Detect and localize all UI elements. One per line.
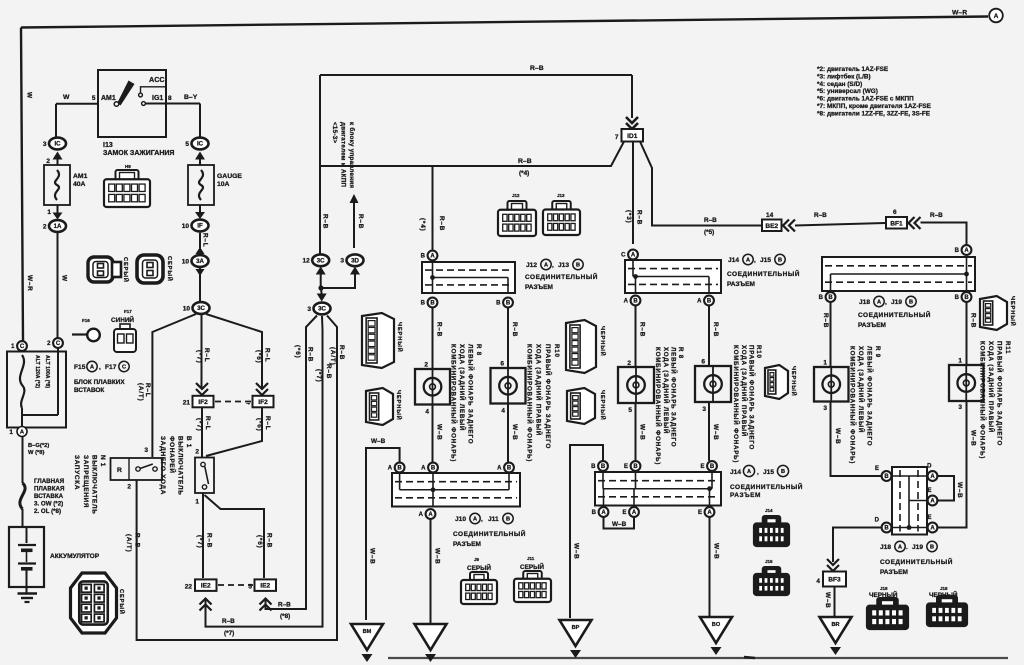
svg-text:J16: J16 xyxy=(765,559,773,564)
label junction connector (pair3 bottom) xyxy=(880,557,953,576)
pins A B below J14/J15 xyxy=(624,296,714,306)
wire R-B (*4) to J12 junction xyxy=(419,158,532,250)
label R11 lamp xyxy=(979,341,1012,459)
svg-text:R–L: R–L xyxy=(202,233,209,247)
svg-text:ЧЕРНЫЙ: ЧЕРНЫЙ xyxy=(790,366,798,397)
dashed link between IE2 connectors xyxy=(218,584,253,586)
svg-text:IF2: IF2 xyxy=(258,399,268,406)
svg-text:,: , xyxy=(481,516,483,523)
svg-text:W–B: W–B xyxy=(824,592,831,609)
svg-text:СЕРЫЙ: СЕРЫЙ xyxy=(166,256,174,282)
label R8 pair2 lamp xyxy=(654,347,684,465)
label J14 A J15 B (top) xyxy=(728,254,785,264)
svg-text:ALT 120A (*2): ALT 120A (*2) xyxy=(34,355,40,388)
svg-text:A: A xyxy=(930,499,935,505)
ground BR xyxy=(820,617,852,655)
connector 10 3C xyxy=(183,302,210,314)
svg-text:ЛЕВЫЙ ФОНАРЬ ЗАДНЕГО: ЛЕВЫЙ ФОНАРЬ ЗАДНЕГО xyxy=(467,344,475,444)
svg-text:1: 1 xyxy=(823,360,827,367)
svg-text:W–B: W–B xyxy=(612,521,627,528)
svg-text:R–B: R–B xyxy=(712,322,719,337)
svg-text:(*7): (*7) xyxy=(224,630,234,637)
svg-text:A: A xyxy=(746,258,750,264)
svg-text:B–G(*2): B–G(*2) xyxy=(28,443,49,449)
label junction connector (pair2 top) xyxy=(727,269,800,288)
svg-text:BM: BM xyxy=(363,629,372,635)
svg-text:J9: J9 xyxy=(474,557,480,562)
svg-text:ПРАВЫЙ ФОНАРЬ ЗАДНЕГО: ПРАВЫЙ ФОНАРЬ ЗАДНЕГО xyxy=(544,344,552,449)
svg-text:ЧЕРНЫЙ: ЧЕРНЫЙ xyxy=(599,326,607,357)
svg-text:B: B xyxy=(955,248,960,254)
svg-text:J19: J19 xyxy=(940,586,948,591)
wire R-B to lamp R10 (pair2 right, pin 6) xyxy=(701,306,719,366)
svg-text:двигателем и АКПП: двигателем и АКПП xyxy=(339,122,346,188)
connector icon black R8 upper xyxy=(362,313,404,368)
svg-text:АККУМУЛЯТОР: АККУМУЛЯТОР xyxy=(50,553,100,560)
svg-text:21: 21 xyxy=(183,400,191,407)
svg-text:ВЫКЛЮЧАТЕЛЬ: ВЫКЛЮЧАТЕЛЬ xyxy=(90,455,97,515)
svg-text:IE2: IE2 xyxy=(260,583,270,590)
connector icon black R10 lower (middle) xyxy=(567,388,607,424)
svg-text:W–B: W–B xyxy=(956,482,963,499)
wire R-L (*7) from 3C to connector 21 IF2 xyxy=(196,315,211,389)
svg-text:R 8: R 8 xyxy=(677,347,684,359)
svg-text:2: 2 xyxy=(127,484,131,491)
svg-text:A: A xyxy=(497,466,502,472)
svg-text:A: A xyxy=(473,517,477,523)
svg-text:F15: F15 xyxy=(74,364,86,371)
svg-text:R–B: R–B xyxy=(436,322,443,337)
svg-text:СОЕДИНИТЕЛЬНЫЙ: СОЕДИНИТЕЛЬНЫЙ xyxy=(880,557,953,566)
wire W-B inverted U to ground BP xyxy=(570,445,603,618)
N1 designator text xyxy=(73,455,106,515)
connector icon black J18 (bottom) xyxy=(867,586,908,629)
svg-text:3C: 3C xyxy=(317,258,325,265)
svg-text:A: A xyxy=(877,300,881,306)
svg-text:IC: IC xyxy=(197,141,204,148)
svg-text:A: A xyxy=(631,253,636,259)
connector 7 ID1 xyxy=(615,117,643,142)
wire R-L (A/T) from 3C to park/neutral switch N1 xyxy=(137,314,196,457)
svg-text:<15-3>: <15-3> xyxy=(331,122,338,143)
svg-text:.: . xyxy=(906,544,908,551)
reverse lamp R8 (pair2 left) xyxy=(618,367,654,403)
svg-text:*4: седан (S/D): *4: седан (S/D) xyxy=(817,81,862,88)
svg-text:B: B xyxy=(633,299,638,305)
wire R-B from BE2 to BF1 xyxy=(795,212,885,226)
connector 3 IC xyxy=(43,138,66,160)
svg-text:ЗАМОК ЗАЖИГАНИЯ: ЗАМОК ЗАЖИГАНИЯ xyxy=(103,150,174,157)
svg-text:БЛОК ПЛАВКИХ: БЛОК ПЛАВКИХ xyxy=(74,379,125,386)
svg-text:3: 3 xyxy=(958,404,962,411)
pins A B top of junction J10/J11 xyxy=(388,463,514,473)
wire and arrow into fuse GAUGE xyxy=(199,158,201,165)
svg-text:BR: BR xyxy=(831,622,839,628)
svg-text:D: D xyxy=(875,518,880,524)
svg-text:A: A xyxy=(632,510,637,516)
svg-text:J18: J18 xyxy=(880,544,891,551)
svg-text:J14: J14 xyxy=(730,469,741,476)
svg-text:5: 5 xyxy=(185,141,189,148)
svg-text:J19: J19 xyxy=(891,299,902,306)
junction connector J14/J15 top box xyxy=(625,260,721,293)
label J18 A J19 B (top) xyxy=(859,296,916,306)
svg-text:A: A xyxy=(419,512,424,518)
svg-text:(*5): (*5) xyxy=(704,229,714,236)
reverse light switch B1 (ВЫКЛЮЧАТЕЛЬ ФОНАРЕЙ ЗАДНЕГО ХОДА) xyxy=(195,449,214,506)
wire W-B from E A to ground BO xyxy=(710,517,720,617)
svg-text:(*4): (*4) xyxy=(519,170,529,177)
svg-text:R–L: R–L xyxy=(264,348,271,362)
svg-text:R 9: R 9 xyxy=(874,346,881,358)
svg-text:В 1: В 1 xyxy=(185,436,192,448)
svg-text:12: 12 xyxy=(302,258,310,265)
svg-text:1: 1 xyxy=(958,358,962,365)
svg-text:IE2: IE2 xyxy=(201,583,211,590)
svg-text:ЧЕРНЫЙ: ЧЕРНЫЙ xyxy=(395,390,403,421)
svg-text:8: 8 xyxy=(168,95,172,102)
pins B B below J18/J19 xyxy=(819,292,972,302)
svg-text:40A: 40A xyxy=(73,181,86,188)
svg-text:A: A xyxy=(430,254,435,260)
svg-text:B: B xyxy=(710,464,715,470)
svg-text:E: E xyxy=(624,464,628,470)
wire W-B from pair2 right lamp pin 3 xyxy=(702,402,719,461)
label fusible link block xyxy=(74,379,125,394)
svg-text:R–B: R–B xyxy=(278,602,291,609)
svg-text:КОМБИНИРОВАННЫЙ ФОНАРЬ): КОМБИНИРОВАННЫЙ ФОНАРЬ) xyxy=(732,345,740,463)
svg-text:R–B: R–B xyxy=(325,364,332,379)
connector 3 3D xyxy=(340,214,364,275)
connector 22 IE2 xyxy=(185,579,217,610)
svg-text:B: B xyxy=(633,464,638,470)
connector icon J16 (right of pair2) xyxy=(754,559,789,595)
svg-text:ХОДА (ЗАДНИЙ ПРАВЫЙ: ХОДА (ЗАДНИЙ ПРАВЫЙ xyxy=(535,344,543,436)
svg-text:3C: 3C xyxy=(318,306,326,313)
page edge artifact line (bottom) xyxy=(388,657,1008,658)
svg-text:ЧЕРНЫЙ: ЧЕРНЫЙ xyxy=(1009,296,1017,327)
connector 5 IC xyxy=(185,138,208,160)
label junction connector (pair2 bottom) xyxy=(730,482,803,499)
svg-text:R–B: R–B xyxy=(704,217,717,224)
svg-text:,: , xyxy=(552,262,554,269)
svg-text:4: 4 xyxy=(425,409,429,416)
pin D A right top of vertical box xyxy=(927,464,937,481)
svg-text:B: B xyxy=(506,517,510,523)
svg-text:W (*8): W (*8) xyxy=(28,450,44,456)
svg-text:РАЗЪЕМ: РАЗЪЕМ xyxy=(727,281,755,288)
svg-text:,: , xyxy=(99,364,101,371)
svg-text:W–B: W–B xyxy=(436,424,443,441)
svg-text:7: 7 xyxy=(615,134,619,141)
wire R-B top horizontal to ID1 xyxy=(320,65,632,118)
connector icon J11 grey (СЕРЫЙ) xyxy=(514,556,551,602)
svg-text:1: 1 xyxy=(47,209,51,216)
pin 8 label and wire B-Y from IG1 xyxy=(166,94,200,137)
legend notes *2-*8 xyxy=(817,66,932,117)
svg-text:3D: 3D xyxy=(351,258,359,265)
svg-text:22: 22 xyxy=(185,584,193,591)
connector 2 C xyxy=(47,338,63,348)
svg-text:R–B: R–B xyxy=(636,210,643,225)
junction connector J12/J13 box xyxy=(422,262,515,293)
svg-text:ХОДА (ЗАДНИЙ ЛЕВЫЙ: ХОДА (ЗАДНИЙ ЛЕВЫЙ xyxy=(662,347,670,434)
svg-text:B: B xyxy=(955,295,960,301)
svg-text:ХОДА (ЗАДНИЙ ЛЕВЫЙ: ХОДА (ЗАДНИЙ ЛЕВЫЙ xyxy=(857,346,865,433)
svg-text:ЧЕРНЫЙ: ЧЕРНЫЙ xyxy=(599,390,607,421)
svg-text:W–B: W–B xyxy=(639,424,646,441)
svg-text:6: 6 xyxy=(500,361,504,368)
pin E A right bottom of vertical box xyxy=(927,515,937,532)
label J18 A J19 B (bottom) xyxy=(880,541,937,551)
svg-text:R–B: R–B xyxy=(307,347,314,362)
svg-text:W–B: W–B xyxy=(573,543,580,560)
svg-text:3: 3 xyxy=(43,141,47,148)
svg-text:W: W xyxy=(63,94,70,101)
svg-text:3C: 3C xyxy=(197,305,205,312)
svg-text:ACC: ACC xyxy=(149,75,165,84)
svg-text:ПРАВЫЙ ФОНАРЬ ЗАДНЕГО: ПРАВЫЙ ФОНАРЬ ЗАДНЕГО xyxy=(996,341,1004,446)
svg-text:ЛЕВЫЙ ФОНАРЬ ЗАДНЕГО: ЛЕВЫЙ ФОНАРЬ ЗАДНЕГО xyxy=(866,346,874,446)
svg-text:R11: R11 xyxy=(1004,341,1011,354)
svg-text:R–B: R–B xyxy=(530,65,544,72)
wire W-B from pair2 left lamp pin 5 xyxy=(628,403,645,461)
svg-text:(А/Т): (А/Т) xyxy=(137,383,144,402)
svg-text:R–B: R–B xyxy=(814,212,827,219)
wire R-B to lamp R11 (pin 1) xyxy=(958,302,976,365)
svg-text:J12: J12 xyxy=(512,193,520,198)
svg-text:R–B: R–B xyxy=(134,533,141,548)
svg-text:10A: 10A xyxy=(217,181,230,188)
svg-text:ВСТАВОК: ВСТАВОК xyxy=(74,387,104,394)
connector 10 IF xyxy=(182,220,209,232)
svg-text:E: E xyxy=(875,466,879,472)
svg-text:КОМБИНИРОВАННЫЙ ФОНАРЬ): КОМБИНИРОВАННЫЙ ФОНАРЬ) xyxy=(654,347,662,465)
connector 6 BF1 xyxy=(886,209,921,229)
wire R-B (*8) bottom run from 5 IE2 to 3C xyxy=(266,316,318,621)
svg-text:A: A xyxy=(747,469,751,475)
pins top of J14/J15 bottom box xyxy=(591,461,717,471)
svg-text:*8: двигатели 1ZZ-FE, 3ZZ-FE,: *8: двигатели 1ZZ-FE, 3ZZ-FE, 3S-FE xyxy=(817,110,931,117)
svg-text:E: E xyxy=(622,510,626,516)
connector icon J13 black xyxy=(543,193,580,235)
svg-text:R–B: R–B xyxy=(338,345,345,360)
pin B A into junction J18/J19 xyxy=(955,245,972,255)
svg-text:ЗАПРЕЩЕНИЯ: ЗАПРЕЩЕНИЯ xyxy=(82,455,89,508)
svg-text:GAUGE: GAUGE xyxy=(217,173,242,180)
pin E B left top of vertical box xyxy=(875,466,891,481)
svg-text:СЕРЫЙ: СЕРЫЙ xyxy=(520,562,544,571)
wire R-B to lamp R9 (pin 1) xyxy=(822,302,831,367)
label R9 lamp xyxy=(849,346,882,464)
label J12 A J13 B xyxy=(526,259,583,269)
main fusible link (ГЛАВНАЯ ПЛАВКАЯ ВСТАВКА) xyxy=(20,478,65,515)
ground from battery xyxy=(18,587,38,602)
svg-text:ВСТАВКА: ВСТАВКА xyxy=(34,493,64,500)
svg-text:W: W xyxy=(61,275,68,282)
wire R-B to lamp R10 (pin 6) xyxy=(500,308,518,368)
svg-text:B: B xyxy=(964,295,969,301)
svg-text:A: A xyxy=(930,526,935,532)
svg-text:B: B xyxy=(884,526,889,532)
svg-text:R–B: R–B xyxy=(822,313,829,328)
dashed link between IF2 connectors xyxy=(215,401,251,403)
svg-text:C: C xyxy=(56,341,61,347)
svg-text:W–B: W–B xyxy=(371,438,386,445)
svg-text:A: A xyxy=(930,474,935,480)
svg-text:W–B: W–B xyxy=(434,548,441,565)
svg-text:A: A xyxy=(544,263,548,269)
connector 14 BE2 xyxy=(762,212,795,232)
svg-text:A: A xyxy=(601,510,606,516)
connector icon H9 below ignition switch xyxy=(104,164,150,207)
junction of 3C and 3D wires xyxy=(317,274,355,302)
svg-text:R–B: R–B xyxy=(266,533,273,548)
pin 10 arrow into connector IF xyxy=(195,205,205,219)
svg-text:BP: BP xyxy=(572,625,580,631)
svg-text:J12: J12 xyxy=(526,262,537,269)
svg-text:ФОНАРЕЙ: ФОНАРЕЙ xyxy=(168,436,177,474)
svg-text:E: E xyxy=(927,515,931,521)
svg-text:2: 2 xyxy=(43,223,47,230)
svg-text:ХОДА (ЗАДНИЙ ЛЕВЫЙ: ХОДА (ЗАДНИЙ ЛЕВЫЙ xyxy=(458,344,466,431)
svg-text:A: A xyxy=(898,545,902,551)
svg-text:E: E xyxy=(927,488,931,494)
svg-text:B: B xyxy=(397,466,402,472)
connector 4 IF2 xyxy=(246,383,273,407)
svg-text:10: 10 xyxy=(182,258,190,265)
wire W-B from R9 pin 3 xyxy=(823,402,881,477)
wire W-B from BF3 to ground BR xyxy=(824,587,835,618)
wire R-B (*7) from B1 pin 1 to connector 22 IE2 xyxy=(196,493,213,578)
svg-text:ID1: ID1 xyxy=(627,133,638,140)
wire R-B to lamp R8 xyxy=(424,308,442,369)
svg-text:B–Y: B–Y xyxy=(184,94,198,101)
B1 designator text xyxy=(159,436,192,496)
svg-text:РАЗЪЕМ: РАЗЪЕМ xyxy=(730,492,761,499)
svg-text:(*7): (*7) xyxy=(196,418,203,432)
svg-text:B: B xyxy=(430,301,435,307)
svg-text:A: A xyxy=(994,13,999,20)
label junction connector (pair1 top) xyxy=(525,272,598,291)
svg-text:(*7): (*7) xyxy=(196,350,203,364)
svg-text:IG1: IG1 xyxy=(152,95,163,102)
round grey connector icon bottom left xyxy=(71,573,127,633)
svg-text:2: 2 xyxy=(195,449,199,456)
wire from 3A to 3C with arrow xyxy=(196,268,205,301)
svg-text:,: , xyxy=(754,257,756,264)
svg-text:3A: 3A xyxy=(196,258,204,265)
wire W-R from battery feed to node A (top) xyxy=(21,10,988,342)
svg-text:РАЗЪЕМ: РАЗЪЕМ xyxy=(453,541,481,548)
svg-text:ХОДА (ЗАДНИЙ ПРАВЫЙ: ХОДА (ЗАДНИЙ ПРАВЫЙ xyxy=(740,345,748,437)
svg-text:W–R: W–R xyxy=(26,275,33,292)
svg-text:ВЫКЛЮЧАТЕЛЬ: ВЫКЛЮЧАТЕЛЬ xyxy=(176,436,183,496)
svg-text:6: 6 xyxy=(893,209,897,216)
svg-text:N 1: N 1 xyxy=(99,455,106,467)
pin 1 label below fuse AM1 xyxy=(47,205,62,220)
svg-text:2: 2 xyxy=(46,158,50,165)
junction connector J14/J15 bottom box xyxy=(595,472,721,506)
svg-text:B: B xyxy=(507,466,512,472)
svg-text:R–L: R–L xyxy=(204,416,211,430)
svg-text:J11: J11 xyxy=(527,556,535,561)
wire from ID1 down to C A (pair 2) xyxy=(625,142,643,245)
wire to engine control unit with arrow xyxy=(331,122,359,248)
svg-text:BO: BO xyxy=(712,622,721,628)
label junction connector (pair3 top) xyxy=(858,310,931,329)
wire R-B to lamp R8 (pair2 left, pin 2) xyxy=(627,306,645,367)
svg-text:B: B xyxy=(431,466,436,472)
svg-text:(А/Т): (А/Т) xyxy=(125,534,132,553)
svg-text:B: B xyxy=(506,301,511,307)
svg-text:D: D xyxy=(927,464,932,470)
svg-text:ХОДА (ЗАДНИЙ ПРАВЫЙ: ХОДА (ЗАДНИЙ ПРАВЫЙ xyxy=(987,341,995,433)
label R10 right lamp xyxy=(525,344,560,462)
connector icon B4 grey xyxy=(88,257,130,283)
svg-text:R–B: R–B xyxy=(357,214,364,229)
svg-text:I13: I13 xyxy=(103,142,113,149)
reverse lamp R10 right xyxy=(491,368,526,404)
svg-text:5: 5 xyxy=(628,407,632,414)
svg-text:E: E xyxy=(698,510,702,516)
reverse lamp R11 xyxy=(949,365,984,401)
svg-text:W: W xyxy=(26,92,33,99)
connector 10 3A xyxy=(182,247,209,267)
svg-text:14: 14 xyxy=(766,212,774,219)
svg-text:J18: J18 xyxy=(880,586,888,591)
svg-text:ЧЕРНЫЙ: ЧЕРНЫЙ xyxy=(396,322,404,353)
svg-text:A: A xyxy=(964,248,969,254)
N1 pin 3 label xyxy=(144,447,148,454)
svg-text:5: 5 xyxy=(92,95,96,102)
svg-text:1: 1 xyxy=(195,499,199,506)
svg-text:B: B xyxy=(884,474,889,480)
junction connector J10/J11 box xyxy=(392,473,520,507)
svg-text:КОМБИНИРОВАННЫЙ ФОНАРЬ): КОМБИНИРОВАННЫЙ ФОНАРЬ) xyxy=(525,344,533,462)
svg-text:ПРАВЫЙ ФОНАРЬ ЗАДНЕГО: ПРАВЫЙ ФОНАРЬ ЗАДНЕГО xyxy=(747,345,755,450)
svg-text:B: B xyxy=(819,295,824,301)
svg-text:R–B: R–B xyxy=(438,216,445,231)
svg-text:J11: J11 xyxy=(488,516,499,523)
wire R-B from BF1 to J18 junction xyxy=(921,212,967,245)
svg-text:СЕРЫЙ: СЕРЫЙ xyxy=(467,563,491,572)
svg-text:R: R xyxy=(117,467,122,474)
svg-text:*5: универсал (WG): *5: универсал (WG) xyxy=(817,88,878,95)
svg-text:2. OL (*8): 2. OL (*8) xyxy=(34,508,61,515)
svg-text:J15: J15 xyxy=(763,469,774,476)
battery (АККУМУЛЯТОР) xyxy=(9,509,100,587)
svg-text:ПЛАВКАЯ: ПЛАВКАЯ xyxy=(34,486,65,493)
svg-text:(*7): (*7) xyxy=(315,369,322,383)
connector 4 BF3 xyxy=(816,559,846,587)
svg-text:R–B: R–B xyxy=(206,533,213,548)
svg-text:W–B: W–B xyxy=(369,548,376,565)
svg-text:РАЗЪЕМ: РАЗЪЕМ xyxy=(880,569,908,576)
pin E A right middle of vertical box xyxy=(927,488,937,505)
svg-text:РАЗЪЕМ: РАЗЪЕМ xyxy=(858,322,886,329)
wire R-B (A/T) from N1 pin 2 to bottom bus xyxy=(125,316,345,641)
svg-text:(*3): (*3) xyxy=(625,210,632,224)
svg-text:(*8): (*8) xyxy=(280,613,290,620)
ground (unlabeled, centre) xyxy=(415,624,447,662)
svg-text:B: B xyxy=(930,545,934,551)
svg-text:J14: J14 xyxy=(765,508,773,513)
svg-text:(*6): (*6) xyxy=(255,350,262,364)
wire W-B from J10/J11 to ground xyxy=(431,519,441,624)
label J14 A J15 B (bottom) xyxy=(730,465,789,476)
svg-text:(А/Т): (А/Т) xyxy=(329,347,336,366)
